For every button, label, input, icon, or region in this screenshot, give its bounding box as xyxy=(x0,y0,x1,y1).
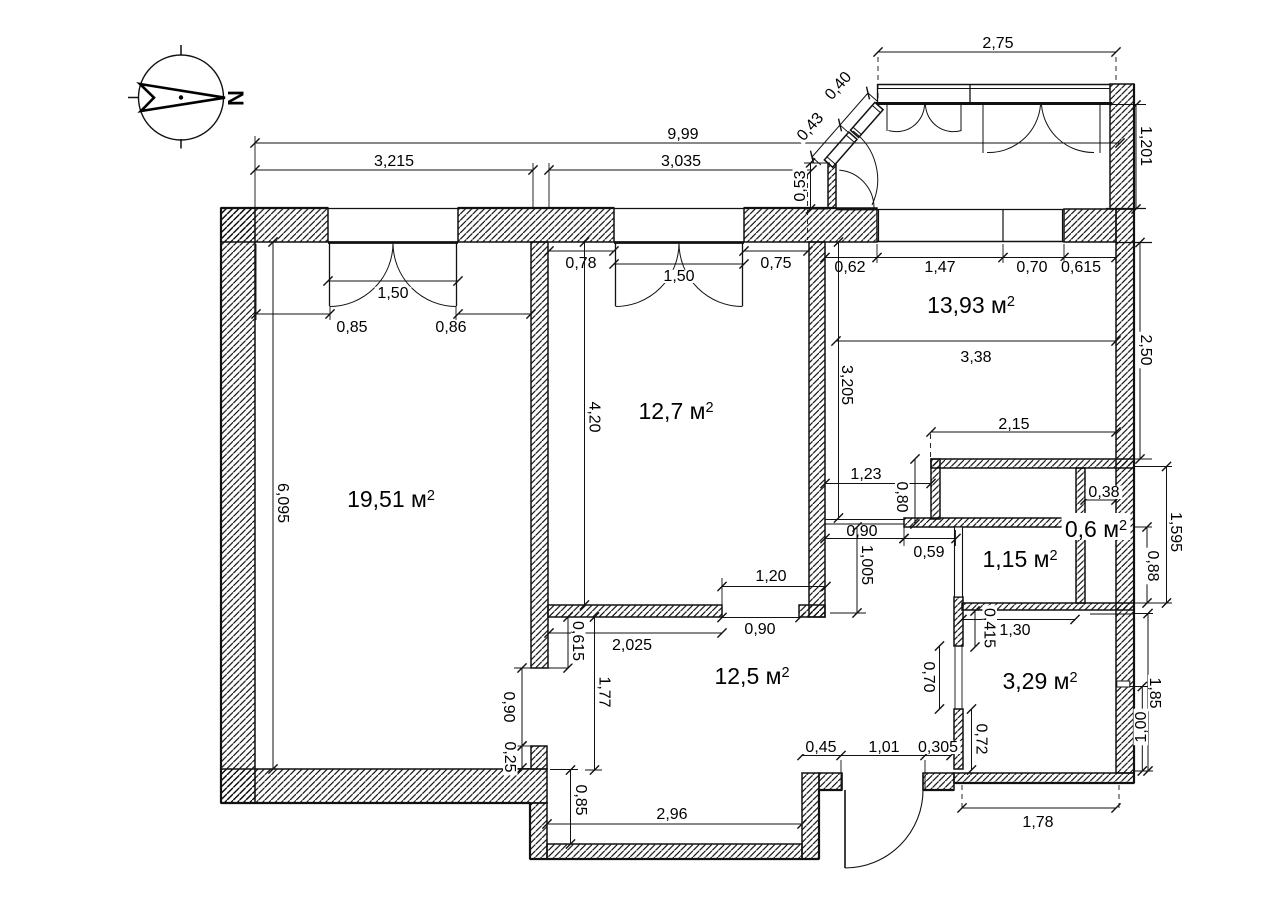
ext line x549 xyxy=(548,163,550,208)
threshold 0.6 room bottom xyxy=(1090,613,1134,615)
dim 0.78 label xyxy=(563,255,600,272)
dim 1.00 line xyxy=(1138,682,1147,776)
svg-text:0,90: 0,90 xyxy=(744,621,775,638)
ext 0.85 TL left xyxy=(255,244,257,320)
svg-text:12,7 м2: 12,7 м2 xyxy=(638,398,713,424)
outer edge entrance left xyxy=(819,789,842,791)
dim 0.415 label xyxy=(981,605,998,650)
ext entrance dim x925 xyxy=(924,760,926,790)
compass arrow xyxy=(140,84,225,111)
svg-text:1,15 м2: 1,15 м2 xyxy=(982,546,1057,572)
balcony opening right jamb xyxy=(1062,209,1064,242)
wall wall between 19.51 and 12.7 xyxy=(531,242,548,668)
svg-text:0,53: 0,53 xyxy=(792,170,809,201)
wall bottom wall 12.7 xyxy=(548,605,722,617)
dim 0.78 line xyxy=(544,246,618,255)
dim 0.88 line xyxy=(1142,522,1151,607)
dim 1.595 label xyxy=(1167,509,1184,554)
svg-text:1,77: 1,77 xyxy=(596,676,613,707)
svg-text:3,29 м2: 3,29 м2 xyxy=(1002,668,1077,694)
svg-text:2,025: 2,025 xyxy=(612,637,652,654)
ext 1.78 left dashed xyxy=(961,785,963,812)
bay large window right arc xyxy=(1042,105,1095,153)
dim 1.00 label xyxy=(1133,709,1150,746)
heavy cap top wall 13.93 left piece xyxy=(836,208,877,210)
svg-text:1,47: 1,47 xyxy=(924,259,955,276)
dim 3.035 label xyxy=(658,153,703,170)
dim 0.38 line xyxy=(1080,495,1120,504)
wall wall piece below 19.51 door xyxy=(531,746,547,769)
svg-text:2,96: 2,96 xyxy=(656,806,687,823)
dim 1.201 line xyxy=(1131,100,1140,213)
wall bottom wall 12.5 xyxy=(547,844,802,859)
dim 0.25 line xyxy=(517,741,526,772)
balcony opening top line xyxy=(877,209,1064,211)
outer edge top A xyxy=(221,207,328,209)
dim 2.96 label xyxy=(654,806,691,823)
dim 0.86 line xyxy=(453,309,535,318)
dim 2.75 label xyxy=(980,35,1017,52)
ext window 19.51 right xyxy=(455,306,457,320)
dim 2.75 line xyxy=(873,47,1120,56)
window 19.51 left swing arc xyxy=(330,243,394,307)
bay diagonal window boxes xyxy=(824,102,883,167)
ext closet cap y459 xyxy=(1134,458,1152,460)
dim 0.72 label xyxy=(973,721,990,758)
balcony opening mullion xyxy=(1002,209,1004,242)
wall closet mid band xyxy=(904,518,1076,527)
window 19.51 left leaf xyxy=(329,243,331,306)
window 12.7 right leaf xyxy=(742,243,744,306)
dim 1.30 label xyxy=(997,622,1034,639)
window 12.7 sill thick line xyxy=(614,241,744,244)
svg-text:19,51 м2: 19,51 м2 xyxy=(347,486,435,512)
balcony opening bottom line xyxy=(877,241,1064,243)
dim 0.70 3.29door line xyxy=(935,641,944,713)
svg-text:0,86: 0,86 xyxy=(435,319,466,336)
ext x1003 top row xyxy=(1002,244,1004,263)
wall top wall segment C (12.7 to bay) xyxy=(744,208,877,242)
svg-text:1,201: 1,201 xyxy=(1137,126,1154,166)
window 19.51 sill thick line xyxy=(328,241,458,244)
dim 2.15 label xyxy=(996,416,1033,433)
svg-text:0,45: 0,45 xyxy=(805,739,836,756)
ext entrance dim x841 xyxy=(840,760,842,790)
dim 0.85 bottom line xyxy=(566,765,575,848)
svg-text:0,415: 0,415 xyxy=(981,608,998,648)
dim 1.01 label xyxy=(866,739,903,756)
bay small window right arc xyxy=(926,105,962,132)
dim 0.25 label xyxy=(501,739,518,776)
window 12.7 left swing arc xyxy=(616,243,680,307)
ext 1.005 bottom xyxy=(830,612,866,614)
dim 9.99 line xyxy=(250,138,1124,147)
svg-text:1,00: 1,00 xyxy=(1133,711,1150,742)
svg-text:0,6 м2: 0,6 м2 xyxy=(1065,516,1127,542)
svg-text:1,85: 1,85 xyxy=(1146,677,1163,708)
bay parapet outer line xyxy=(877,84,1110,86)
thin wall 1.15 left xyxy=(955,527,963,597)
ext dashed 2.15 left xyxy=(930,434,932,458)
dim 4.20 label xyxy=(586,399,603,436)
ext 1.23 right xyxy=(930,468,932,497)
balcony door swing arc large xyxy=(853,131,878,205)
dim 0.53 label xyxy=(792,168,809,205)
compass bottom tick xyxy=(180,139,182,149)
dim 3.035 line xyxy=(544,165,816,174)
svg-text:3,035: 3,035 xyxy=(661,153,701,170)
dim 0.615 left label xyxy=(569,618,586,663)
dim 1.50 12.7 line xyxy=(609,259,748,268)
ext dashed x878 (2.75) xyxy=(877,57,879,100)
ext 0.53 top xyxy=(804,162,830,164)
wall top wall segment B (between windows) xyxy=(458,208,614,242)
dim 6.095 label xyxy=(274,480,291,525)
svg-text:0,38: 0,38 xyxy=(1088,484,1119,501)
wall step wall left xyxy=(530,803,547,859)
ext 2.96 left xyxy=(546,828,548,846)
ext right wall top cap xyxy=(1106,208,1146,210)
outer edge step left xyxy=(529,803,531,859)
dim 1.77 label xyxy=(596,674,613,711)
compass top tick xyxy=(180,45,182,55)
dim 0.75 line xyxy=(739,246,812,255)
bay parapet inner thick line xyxy=(876,102,1112,105)
dim 9.99 label xyxy=(665,126,702,143)
outer edge top C xyxy=(744,207,836,209)
wall wall left of 3.29 lower xyxy=(954,709,963,769)
svg-text:0,90: 0,90 xyxy=(846,523,877,540)
svg-text:1,20: 1,20 xyxy=(755,568,786,585)
dim 1.20 label xyxy=(753,568,790,585)
wall wall 1.15 lower left xyxy=(954,597,963,646)
ext cap y771 right xyxy=(1134,770,1153,772)
svg-text:0,80: 0,80 xyxy=(893,481,910,512)
ext x825 top row xyxy=(824,244,826,263)
ext 0.85 bottom top-ref xyxy=(550,769,578,771)
window 19.51 right leaf xyxy=(456,243,458,306)
room label 12.5 xyxy=(712,660,793,689)
dim 1.50 12.7 label xyxy=(661,268,698,285)
ext right wall cap y242 xyxy=(1116,242,1152,244)
ext cap y603 right xyxy=(1134,602,1172,604)
dim 0.59 line xyxy=(899,534,960,543)
bay parapet left end xyxy=(877,84,879,104)
dim 1.595 line xyxy=(1162,462,1171,608)
ext 19.51 door top xyxy=(514,667,568,669)
dim 1.201 label xyxy=(1137,123,1154,168)
svg-text:0,615: 0,615 xyxy=(1061,259,1101,276)
svg-text:3,215: 3,215 xyxy=(374,153,414,170)
dim 3.38 line xyxy=(831,336,1120,345)
svg-text:1,50: 1,50 xyxy=(377,285,408,302)
dim 2.15 line xyxy=(926,427,1120,436)
room label 0.6 xyxy=(1062,513,1131,542)
dim 3.205 line xyxy=(834,237,843,522)
dim 0.62 label xyxy=(832,259,869,276)
outer edge bottom 3.29 xyxy=(954,782,1134,784)
svg-text:1,50: 1,50 xyxy=(663,268,694,285)
dim 1.30 line xyxy=(957,615,1079,624)
dim 3.205 label xyxy=(838,362,855,407)
compass left tick xyxy=(128,97,139,99)
dim 0.90 19.51door label xyxy=(500,689,517,726)
dim 0.615 top label xyxy=(1058,259,1103,276)
wall closet left wall xyxy=(931,459,940,519)
dim 0.80 line xyxy=(910,454,919,528)
door 3.29 jamb line right xyxy=(961,646,963,709)
niche notch in right wall xyxy=(1117,681,1130,687)
dim 2.96 line xyxy=(542,819,806,828)
svg-text:4,20: 4,20 xyxy=(586,401,603,432)
dim 0.80 label xyxy=(893,479,910,516)
ext 1.20 left xyxy=(721,578,723,606)
wall bay door jamb xyxy=(828,163,836,208)
wall closet divider wall xyxy=(1076,468,1085,603)
svg-text:0,615: 0,615 xyxy=(569,621,586,661)
ext 19.51 door bottom xyxy=(516,745,531,747)
dim 3.215 line xyxy=(250,165,537,174)
svg-text:13,93 м2: 13,93 м2 xyxy=(927,292,1015,318)
balcony door swing arc small xyxy=(839,170,874,208)
entrance door leaf xyxy=(844,790,846,868)
outer edge bottom 12.5 xyxy=(530,858,819,860)
bay small window left leaf xyxy=(886,104,888,131)
room label 13.93 xyxy=(925,289,1017,318)
dim 0.43 label xyxy=(792,108,829,147)
ext bay cap y104 xyxy=(1110,104,1146,106)
entrance door swing arc xyxy=(845,790,923,868)
room label 1.15 xyxy=(980,543,1061,572)
dim 0.85 TL line xyxy=(251,309,334,318)
dim 1.005 label xyxy=(858,542,875,587)
wall wall right of 12.7 xyxy=(809,242,825,617)
svg-text:2,15: 2,15 xyxy=(998,416,1029,433)
entrance door jamb left xyxy=(841,773,843,790)
ext x877 top row xyxy=(876,244,878,263)
bay parapet divider xyxy=(969,84,971,104)
dim 0.88 label xyxy=(1144,548,1161,585)
dim 2.025 label xyxy=(609,637,654,654)
svg-text:1,78: 1,78 xyxy=(1022,814,1053,831)
svg-text:0,70: 0,70 xyxy=(920,661,937,692)
svg-text:1,30: 1,30 xyxy=(999,622,1030,639)
entrance door jamb right xyxy=(922,773,924,790)
dim 0.70 3.29door label xyxy=(920,659,937,696)
dim 0.305 label xyxy=(915,739,960,756)
ext 19.51 wall bottom xyxy=(516,768,531,770)
svg-text:3,205: 3,205 xyxy=(838,365,855,405)
wall closet top band xyxy=(931,459,1134,468)
dim 1.77 line xyxy=(590,612,599,774)
ext 1.77 bottom-ref xyxy=(585,769,602,771)
dim 0.90 12.7door line xyxy=(717,613,804,622)
bay parapet second line xyxy=(877,88,1110,90)
svg-text:0,78: 0,78 xyxy=(565,255,596,272)
dim 4.20 line xyxy=(580,237,589,609)
niche threshold upper line xyxy=(825,519,904,521)
compass center dot xyxy=(179,95,183,99)
dim 1.78 line xyxy=(957,803,1120,812)
dim 0.85 TL label xyxy=(334,319,371,336)
wall entrance wall left piece xyxy=(819,773,842,790)
dim 0.90 12.7door label xyxy=(742,621,779,638)
ext 0.86 TL right xyxy=(530,244,532,320)
compass circle xyxy=(139,55,224,140)
ext window 19.51 left xyxy=(329,306,331,320)
dim 0.72 line xyxy=(967,704,976,774)
svg-text:0,305: 0,305 xyxy=(918,739,958,756)
dim 0.415 line xyxy=(970,606,979,651)
dim 0.40 label xyxy=(820,67,857,106)
window 12.7 right swing arc xyxy=(679,243,743,307)
bay small window left arc xyxy=(889,105,925,132)
outer edge step entrance xyxy=(818,790,820,859)
outer edge top B xyxy=(458,207,614,209)
dim 0.53 line xyxy=(806,158,815,213)
room label 19.51 xyxy=(345,483,437,512)
ext dashed x1116 (2.75) xyxy=(1115,57,1117,84)
wall bottom wall 3.29 xyxy=(954,773,1134,783)
outer edge bottom 19.51 xyxy=(221,802,530,804)
ext 0.59 right xyxy=(955,530,957,546)
bay large window left arc xyxy=(987,105,1041,153)
dim 1.23 line xyxy=(820,479,935,488)
wall entrance wall right piece xyxy=(923,773,954,790)
svg-text:1,23: 1,23 xyxy=(850,466,881,483)
dim 0.86 label xyxy=(433,319,470,336)
window 12.7 left leaf xyxy=(615,243,617,306)
wall bottom band 1.15 / 0.6 xyxy=(962,603,1134,610)
ext x1064 top row xyxy=(1063,244,1065,263)
dim 1.47 label xyxy=(922,259,959,276)
dim 0.90 19.51door line xyxy=(517,663,526,750)
dim 1.78 label xyxy=(1020,814,1057,831)
dim 3.215 label xyxy=(371,153,416,170)
wall outer bottom wall 19.51 xyxy=(221,769,547,803)
ext cap y614 right xyxy=(1134,613,1153,615)
dim 1.85 label xyxy=(1146,675,1163,712)
door 3.29 jamb line left xyxy=(954,646,956,709)
ext 0.90 niche right xyxy=(903,527,905,546)
svg-text:N: N xyxy=(223,90,248,106)
bay small window right leaf xyxy=(960,104,962,131)
svg-text:12,5 м2: 12,5 м2 xyxy=(714,663,789,689)
svg-text:0,88: 0,88 xyxy=(1144,550,1161,581)
ext cap y527 right xyxy=(1134,526,1152,528)
svg-text:0,72: 0,72 xyxy=(973,723,990,754)
svg-text:9,99: 9,99 xyxy=(667,126,698,143)
outer edge entrance right xyxy=(923,789,954,791)
dim 1.85 line xyxy=(1143,609,1152,776)
svg-text:0,85: 0,85 xyxy=(336,319,367,336)
svg-text:0,25: 0,25 xyxy=(501,741,518,772)
dim 0.59 label xyxy=(911,544,948,561)
svg-text:0,59: 0,59 xyxy=(913,544,944,561)
svg-text:0,75: 0,75 xyxy=(760,255,791,272)
dim 0.85 bottom label xyxy=(572,782,589,819)
window 19.51 right swing arc xyxy=(393,243,457,307)
ext line x533 xyxy=(532,163,534,208)
dim diagonal 0.43/0.40 line xyxy=(811,87,878,165)
dim 2.025 line xyxy=(544,628,726,637)
dim 6.095 line xyxy=(268,237,277,773)
svg-text:6,095: 6,095 xyxy=(274,483,291,523)
dim 0.90 niche label xyxy=(844,523,881,540)
dim entrance row line xyxy=(797,751,955,760)
dim 0.90 niche line xyxy=(820,534,908,543)
ext dashed x807 xyxy=(807,174,809,240)
svg-text:1,01: 1,01 xyxy=(868,739,899,756)
ext 1.78 right dashed xyxy=(1118,785,1120,812)
wall bay right wall xyxy=(1110,84,1134,209)
svg-text:0,70: 0,70 xyxy=(1016,259,1047,276)
dim 0.38 label xyxy=(1086,484,1123,501)
room label 3.29 xyxy=(1000,665,1081,694)
wall top wall 13.93 right piece xyxy=(1064,209,1116,242)
ext 0.53 bottom xyxy=(804,208,828,210)
dim 1.20 line xyxy=(717,582,830,591)
ext cap niche y686 xyxy=(1130,686,1148,688)
svg-text:2,50: 2,50 xyxy=(1137,334,1154,365)
svg-text:3,38: 3,38 xyxy=(960,349,991,366)
window 12.7 outer line xyxy=(614,208,744,210)
outer edge right xyxy=(1133,84,1135,783)
dim row 0.62/1.47/0.70/0.615 line xyxy=(820,253,1120,262)
wall outer left xyxy=(221,208,255,803)
niche threshold lower line xyxy=(825,523,904,525)
dim 0.70 top label xyxy=(1014,259,1051,276)
balcony opening left jamb xyxy=(878,209,880,242)
wall outer right wall xyxy=(1116,209,1134,773)
room label 12.7 xyxy=(636,395,717,424)
dim 1.005 line xyxy=(852,522,861,617)
bay large window left leaf xyxy=(982,104,984,153)
dim 2.50 line xyxy=(1135,238,1144,464)
wall step block entrance xyxy=(802,773,819,859)
dim 2.50 label xyxy=(1137,332,1154,369)
ext line x255 xyxy=(254,136,256,242)
svg-text:1,005: 1,005 xyxy=(858,545,875,585)
wall corner piece right of 12.7 door xyxy=(799,605,825,617)
svg-text:0,85: 0,85 xyxy=(572,784,589,815)
ext closet cap y466 xyxy=(1134,466,1172,468)
dim 0.615 left line xyxy=(563,612,572,672)
svg-text:1,595: 1,595 xyxy=(1167,512,1184,552)
svg-text:2,75: 2,75 xyxy=(982,35,1013,52)
wall top wall segment A (19.51) xyxy=(221,208,328,242)
svg-text:0,90: 0,90 xyxy=(500,691,517,722)
dim 0.45 label xyxy=(803,739,840,756)
dim 1.23 label xyxy=(848,466,885,483)
dim 1.50 19.51 label xyxy=(375,285,412,302)
bay large window right leaf xyxy=(1099,104,1101,153)
svg-text:0,62: 0,62 xyxy=(834,259,865,276)
dim 0.75 label xyxy=(758,255,795,272)
dim 1.50 19.51 line xyxy=(323,276,462,285)
outer edge left xyxy=(220,208,222,803)
dim 3.38 label xyxy=(958,349,995,366)
window 19.51 outer line xyxy=(328,208,458,210)
